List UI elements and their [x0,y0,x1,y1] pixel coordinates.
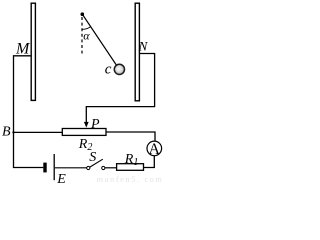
angle arc [82,27,91,30]
plate N [135,3,139,101]
switch S contact right [102,166,105,169]
pendulum bob c [114,64,124,74]
pendulum pivot dot [81,12,85,16]
svg-text:c: c [105,62,112,78]
wire B to potentiometer [14,131,63,133]
plate M [31,3,35,100]
wire ammeter bottom to bottom wire [144,156,155,168]
switch lever [89,159,102,167]
node B junction dot [12,131,14,133]
wiper arrowhead [84,122,89,128]
pendulum dashed vertical reference line [81,17,83,54]
svg-text:B: B [2,125,11,140]
svg-text:manfen5. com: manfen5. com [97,175,163,184]
svg-text:A: A [149,141,161,158]
potentiometer R2 body [62,129,106,136]
pendulum string [82,14,116,65]
svg-text:R1: R1 [124,152,139,168]
wire switch to R1 [105,167,117,169]
ammeter A [147,141,162,156]
svg-text:M: M [15,41,31,58]
wire B down to battery row [14,132,44,167]
wire potentiometer to ammeter top [106,132,155,141]
svg-text:α: α [83,29,90,43]
wire from plate N to potentiometer wiper [86,54,154,124]
battery long thin plate [53,154,55,180]
svg-text:N: N [138,39,149,54]
wire battery to switch [55,167,87,169]
battery short thick plate [43,163,46,173]
svg-text:E: E [56,172,66,186]
svg-text:S: S [89,150,96,165]
switch S contact left [87,166,90,169]
wire from plate M to node B [14,56,32,133]
resistor R1 body [117,164,144,171]
